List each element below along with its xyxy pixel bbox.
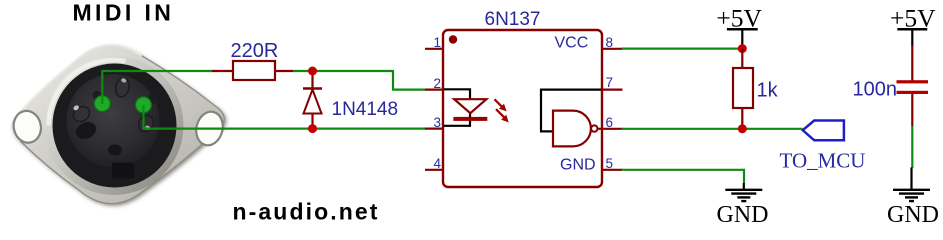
pin shadows on face — [73, 119, 99, 142]
ground GND (left) — [725, 183, 762, 201]
NAND gate body — [553, 111, 591, 147]
svg-text:MIDI IN: MIDI IN — [73, 0, 175, 25]
power +5V (left) — [716, 4, 762, 47]
svg-text:TO_MCU: TO_MCU — [780, 148, 866, 172]
svg-text:GND: GND — [887, 202, 939, 227]
op-to coupler U1 6N137 body — [443, 30, 602, 187]
junction node R2/pin6 — [738, 124, 747, 133]
pin 2 stub — [425, 88, 444, 90]
LED light arrow 2 — [496, 109, 509, 122]
pin 3 of DIN (left, dark) — [71, 103, 93, 124]
internal LED triangle and cathode bar — [453, 99, 487, 121]
pin 6 stub — [598, 128, 623, 130]
svg-text:6N137: 6N137 — [485, 9, 541, 30]
NAND input wire from pin 7 — [541, 90, 601, 132]
pin 5 of DIN (green highlighted) — [94, 96, 110, 112]
wire pin 8 to +5V node — [622, 47, 743, 49]
pin 3 stub — [425, 128, 444, 130]
pin 1 of DIN (right, dark) — [136, 113, 157, 135]
svg-text:n-audio.net: n-audio.net — [233, 199, 380, 225]
svg-text:1k: 1k — [757, 80, 779, 102]
svg-text:100n: 100n — [853, 79, 898, 101]
svg-text:1: 1 — [433, 35, 441, 50]
svg-text:4: 4 — [433, 156, 441, 171]
power +5V (right) — [890, 4, 936, 47]
capacitor C1 100n — [897, 45, 929, 126]
wire C1 to GND — [911, 126, 913, 168]
internal LED of opto (wire loop) — [444, 89, 470, 126]
pin 7 stub — [601, 88, 623, 90]
junction node at D1 cathode / R1 — [308, 67, 317, 76]
junction node pin8/+5V/R2 — [738, 44, 747, 53]
svg-text:6: 6 — [606, 115, 614, 130]
junction node at D1 anode / bottom wire — [308, 124, 317, 133]
svg-text:3: 3 — [433, 115, 441, 130]
svg-text:GND: GND — [560, 157, 596, 174]
svg-text:GND: GND — [717, 202, 769, 227]
wire R1 right to node, then step down into opto pin 2 — [293, 71, 425, 90]
pin 4 stub — [425, 169, 444, 171]
wire from DIN pin 4 down and right to opto pin 3 — [144, 106, 427, 129]
pin 5 stub — [601, 169, 623, 171]
ground GND (right) — [893, 167, 930, 201]
pin 2 of DIN (top center, dark) — [114, 77, 131, 98]
svg-text:7: 7 — [606, 75, 614, 90]
pin 4 of DIN (green highlighted) — [135, 97, 151, 113]
pin 1 stub — [425, 48, 444, 50]
svg-text:220R: 220R — [231, 40, 279, 62]
svg-text:8: 8 — [606, 35, 614, 50]
LED light arrow 1 — [495, 99, 507, 111]
resistor R2 1k — [733, 49, 753, 129]
diode D1 1N4148 — [303, 71, 322, 129]
NAND output bubble — [591, 125, 597, 131]
resistor R1 220R — [212, 61, 293, 80]
svg-text:1N4148: 1N4148 — [332, 99, 399, 120]
flag TO_MCU — [803, 121, 844, 141]
wire pin 5 to GND — [622, 170, 745, 184]
wire pin 6 to TO_MCU — [622, 128, 803, 130]
svg-text:VCC: VCC — [555, 35, 589, 52]
svg-text:2: 2 — [433, 76, 441, 91]
pin 8 stub — [601, 48, 623, 50]
wire from DIN pin 5 up and right to R1 — [102, 71, 213, 104]
svg-text:5: 5 — [606, 156, 614, 171]
connector J1 MIDI DIN-5 socket — [11, 45, 226, 206]
